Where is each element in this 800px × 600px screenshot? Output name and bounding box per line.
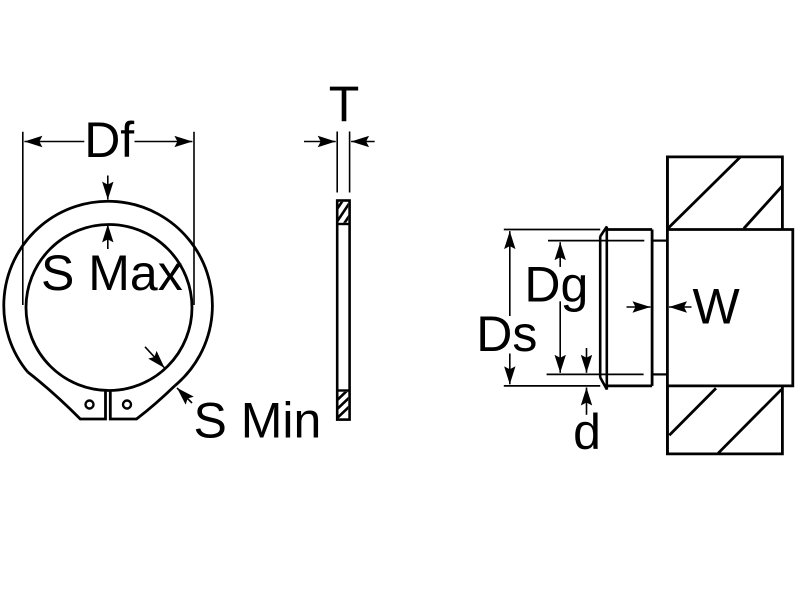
Dg dimension upper arrow: [559, 242, 561, 267]
S Min upper arrow: [145, 347, 165, 368]
T right arrow: [351, 141, 375, 143]
svg-text:S Min: S Min: [194, 393, 322, 449]
S Max upper arrow: [107, 176, 109, 200]
Df extension line left: [22, 132, 24, 305]
groove left wall: [651, 230, 654, 386]
retained part lower section outline: [667, 386, 782, 454]
retained part lower hatch line 1: [669, 388, 716, 435]
ring outer arc: [4, 201, 213, 385]
side view outline: [337, 201, 349, 420]
ring left lug: [28, 372, 106, 419]
W right arrow: [669, 306, 692, 308]
svg-text:S Max: S Max: [41, 245, 183, 301]
Dg top extension line: [548, 240, 644, 242]
Df extension line right: [193, 132, 195, 305]
retained part upper hatch line 1: [669, 157, 741, 228]
retained part upper hatch line 2: [744, 186, 783, 229]
T extension line left: [336, 132, 338, 193]
groove bottom lower: [652, 373, 667, 375]
svg-text:Dg: Dg: [524, 256, 588, 312]
Ds bottom extension line: [504, 385, 600, 387]
shaft body rectangle: [667, 230, 792, 386]
left lug hole: [86, 401, 94, 409]
retained part upper section outline: [667, 157, 782, 230]
ring inner circle: [26, 225, 192, 391]
side view upper section boundary: [337, 223, 349, 225]
Df dimension line left arrow: [24, 141, 84, 143]
svg-text:d: d: [573, 404, 601, 460]
groove right wall: [666, 157, 669, 454]
svg-text:Ds: Ds: [476, 306, 537, 362]
Ds dimension upper arrow: [509, 231, 511, 316]
right lug hole: [123, 401, 131, 409]
shaft chamfer top diagonal: [600, 226, 607, 236]
Dg bottom extension line: [547, 373, 644, 375]
ring right lug: [110, 385, 175, 419]
shaft chamfer bottom diagonal: [600, 377, 607, 389]
shaft top surface: [607, 228, 652, 231]
S Min lower arrow: [177, 388, 192, 403]
d lower arrow: [586, 388, 588, 415]
S Max lower arrow: [107, 224, 109, 249]
T extension line right: [349, 132, 351, 193]
d upper arrow: [586, 348, 588, 373]
T left arrow: [304, 141, 336, 143]
retained part lower hatch line 2: [718, 389, 781, 453]
side view lower section boundary: [337, 389, 349, 391]
shaft chamfer edge: [605, 227, 608, 390]
shaft end face: [599, 236, 602, 377]
shaft bottom surface: [607, 384, 652, 387]
svg-text:Df: Df: [84, 112, 134, 168]
Ds top extension line: [504, 229, 600, 231]
W left arrow: [627, 306, 651, 308]
svg-text:T: T: [329, 76, 360, 132]
Df dimension line right arrow: [135, 141, 193, 143]
Ds dimension lower arrow: [509, 354, 511, 385]
groove bottom upper: [652, 240, 667, 242]
svg-text:W: W: [693, 278, 741, 334]
Dg dimension lower arrow: [559, 301, 561, 373]
